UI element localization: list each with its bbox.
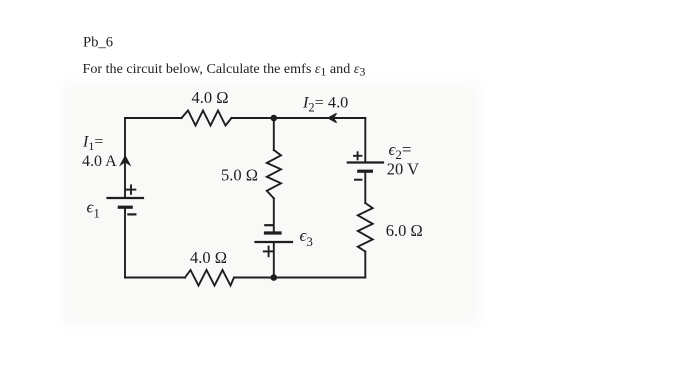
current arrow I2 (pointing left) bbox=[328, 113, 337, 122]
battery E2 minus sign bbox=[354, 179, 362, 181]
battery E3 short plate (-) bbox=[266, 231, 281, 234]
wire left branch upper bbox=[124, 118, 126, 198]
wire top-middle segment bbox=[232, 117, 366, 119]
svg-text:4.0 Ω: 4.0 Ω bbox=[190, 248, 227, 267]
battery E1 long plate (+) bbox=[108, 197, 144, 199]
battery E3 long plate (+) bbox=[256, 241, 293, 243]
wire left branch lower bbox=[124, 207, 126, 277]
battery E2 short plate (-) bbox=[359, 170, 372, 173]
wire middle branch lower bbox=[273, 242, 275, 278]
svg-text:4.0 A: 4.0 A bbox=[82, 153, 117, 170]
current arrow I1 (pointing up) bbox=[121, 156, 130, 165]
wire bottom-left segment bbox=[125, 277, 185, 279]
resistor R3 6.0 ohm (right) bbox=[358, 203, 373, 252]
svg-text:For the circuit below, Calcula: For the circuit below, Calculate the emf… bbox=[83, 61, 366, 79]
svg-text:Pb_6: Pb_6 bbox=[83, 35, 113, 51]
wire top-left segment bbox=[125, 117, 182, 119]
resistor R1 4.0 ohm (top) bbox=[182, 111, 232, 126]
battery E1 short plate (-) bbox=[119, 206, 131, 209]
resistor R2 5.0 ohm (middle) bbox=[267, 150, 281, 198]
wire right branch lower bbox=[364, 252, 366, 278]
wire right branch upper bbox=[364, 118, 366, 163]
battery E3 plus sign bbox=[263, 246, 275, 258]
svg-text:6.0 Ω: 6.0 Ω bbox=[386, 221, 423, 240]
resistor R4 4.0 ohm (bottom) bbox=[185, 270, 234, 286]
node junction top bbox=[271, 115, 278, 122]
battery E1 plus sign bbox=[126, 184, 137, 194]
photo background tint bbox=[62, 82, 480, 325]
battery E3 minus sign bbox=[264, 224, 273, 226]
svg-text:4.0 Ω: 4.0 Ω bbox=[192, 88, 229, 107]
wire middle branch middle bbox=[273, 198, 275, 233]
wire bottom-right segment bbox=[234, 277, 365, 279]
svg-text:20 V: 20 V bbox=[387, 160, 419, 179]
battery E2 long plate (+) bbox=[348, 161, 383, 163]
wire middle branch upper bbox=[273, 118, 275, 150]
wire right branch middle bbox=[364, 171, 366, 203]
battery E1 minus sign bbox=[127, 213, 136, 215]
svg-text:5.0 Ω: 5.0 Ω bbox=[221, 165, 258, 184]
node junction bottom bbox=[271, 274, 278, 281]
battery E2 plus sign bbox=[353, 151, 362, 160]
